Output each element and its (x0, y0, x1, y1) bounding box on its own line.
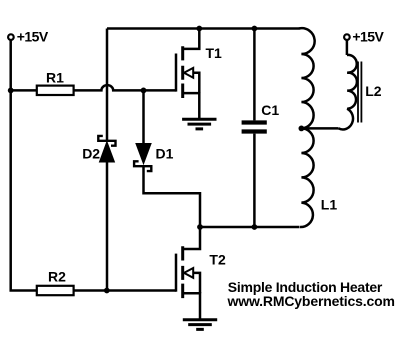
svg-text:R2: R2 (48, 269, 66, 285)
wire: D1 anode from gate junction down (142, 90, 145, 143)
C1 bottom lead (253, 134, 256, 227)
ground (T1 source) (182, 119, 216, 129)
power terminal +15V (right) (344, 34, 350, 40)
wire: D2 anode down to R2/T2-gate junction (106, 162, 109, 291)
D1 cathode bar with hooks (134, 161, 151, 171)
node: L1 tap junction (299, 125, 305, 131)
T1 body arrow (184, 68, 193, 78)
inductor L1 (work coil) (299, 28, 315, 227)
T2 gate bar (175, 254, 178, 292)
node: C1 top on top rail (252, 26, 258, 32)
wire: R2 to T2 gate (74, 289, 176, 292)
svg-text:+15V: +15V (352, 28, 384, 44)
power terminal +15V (left) (8, 34, 14, 40)
C1 top lead (253, 29, 256, 121)
wire: bottom rail (T2 drain, C1 bottom, L1 bottom) (200, 226, 300, 229)
L2 core lines (358, 62, 361, 123)
transistor T2 (N-MOSFET) (176, 227, 200, 320)
svg-text:www.RMCybernetics.com: www.RMCybernetics.com (227, 293, 395, 309)
node: C1 bottom on bottom rail (252, 224, 258, 230)
T1 body-source link (193, 73, 199, 93)
svg-text:T2: T2 (209, 251, 226, 267)
node: junction +15V rail / R1 (8, 88, 14, 94)
T1 source lead (183, 93, 200, 119)
wire: L1 tap to L2 bottom (301, 127, 338, 130)
node: T1 drain on top rail (196, 26, 202, 32)
resistor R1 (37, 86, 74, 95)
wire: D2 net vertical (top rail down to D2 cathode) (106, 29, 109, 141)
node: R2 / D2 / T2 gate junction (104, 288, 110, 294)
wire: junction to R1 (11, 89, 37, 92)
wire: D1 cathode to T2 drain node (144, 166, 201, 227)
T1 gate bar (175, 54, 178, 92)
transistor T1 (N-MOSFET) (176, 29, 199, 120)
C1 plates (242, 123, 267, 132)
svg-text:D1: D1 (156, 146, 174, 162)
ground (T2 source) (183, 320, 217, 330)
svg-text:T1: T1 (206, 45, 223, 61)
node: T2 drain on bottom rail (197, 224, 203, 230)
T2 channel segments (181, 246, 184, 298)
diode D1 (zener, pointing down) (134, 144, 151, 171)
inductor L2 (feedback winding) (339, 55, 357, 130)
wire: top rail (D2 corner, T1 drain, C1 top, to L1) (107, 27, 300, 30)
svg-text:L1: L1 (321, 196, 338, 212)
wire: right terminal to L2 (346, 40, 349, 55)
T2 source lead (183, 293, 200, 320)
T2 body arrow (184, 268, 193, 278)
svg-text:+15V: +15V (17, 28, 49, 44)
D2 triangle (100, 142, 114, 161)
D1 triangle (136, 144, 150, 163)
T2 drain lead (183, 227, 200, 249)
svg-text:R1: R1 (46, 69, 64, 85)
T1 drain lead (183, 29, 200, 49)
D2 cathode bar with hooks (98, 136, 115, 146)
svg-text:D2: D2 (82, 146, 100, 162)
wire: R1 to T1 gate with hop over D2 net (74, 85, 176, 90)
T1 channel segments (181, 46, 184, 98)
resistor R2 (37, 286, 74, 295)
T2 body-source link (193, 273, 200, 293)
wire: left supply rail (terminal down to R2 row) (11, 40, 37, 290)
diode D2 (zener, pointing up) (98, 136, 115, 162)
svg-text:L2: L2 (365, 83, 382, 99)
svg-text:C1: C1 (261, 102, 279, 118)
node: T1 gate / D1 anode junction (141, 88, 147, 94)
capacitor C1 (242, 29, 267, 228)
